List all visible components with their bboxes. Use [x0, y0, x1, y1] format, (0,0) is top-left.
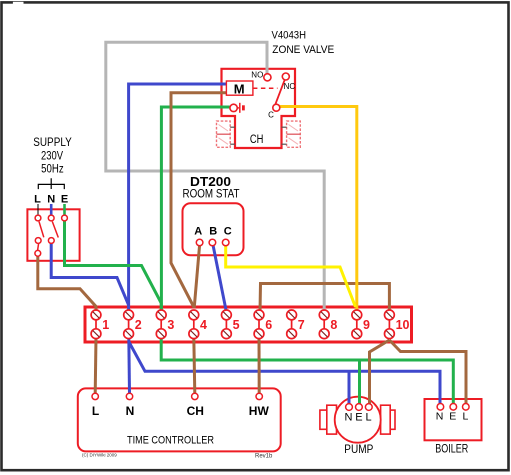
wire yellow stat C to T9: [226, 245, 356, 307]
svg-text:DT200: DT200: [190, 174, 231, 189]
wire brown T10 to pump L: [370, 340, 390, 405]
wire brown T4 to TC CH: [194, 337, 195, 394]
svg-text:BOILER: BOILER: [435, 444, 468, 456]
wire green valve earth to T3: [161, 107, 229, 312]
zone valve left pipe lug: [217, 121, 236, 147]
supply stub N: [50, 204, 53, 215]
strip terminal 6: [254, 310, 272, 339]
svg-text:CH: CH: [250, 134, 264, 146]
strip terminal 7: [287, 310, 305, 339]
wire blue bus to pump N and boiler N: [129, 342, 440, 404]
wire grey NO loop: [106, 42, 324, 312]
wire brown link T6 to T10: [260, 284, 389, 313]
supply switch blades: [39, 222, 44, 238]
boiler box: [425, 399, 482, 440]
wire gold valve C to T9: [280, 107, 357, 313]
svg-text:CH: CH: [187, 404, 204, 418]
svg-text:M: M: [234, 81, 245, 96]
supply terminals: [35, 215, 41, 221]
supply internals: [35, 215, 68, 256]
strip terminal 9: [352, 310, 370, 339]
svg-text:B: B: [209, 225, 217, 237]
supply stub L: [37, 204, 39, 215]
svg-text:A: A: [194, 225, 202, 237]
svg-text:4: 4: [200, 318, 207, 332]
wire brown T10 to boiler L: [389, 340, 466, 404]
svg-text:E: E: [355, 411, 362, 423]
valve earth symbol: [230, 103, 243, 113]
svg-text:E: E: [61, 193, 68, 205]
strip terminal 5: [222, 310, 240, 339]
svg-text:NO: NO: [251, 71, 263, 80]
svg-text:E: E: [449, 410, 456, 422]
svg-text:PUMP: PUMP: [344, 444, 373, 456]
strip terminal 4: [189, 310, 207, 339]
zone valve V4043H outline: [222, 69, 296, 148]
svg-text:N: N: [47, 193, 55, 205]
pump body: [320, 397, 395, 443]
wire green T3 to bus pump E boiler E: [161, 337, 453, 404]
svg-text:3: 3: [167, 318, 174, 332]
wire blue supply N: [51, 242, 128, 305]
svg-text:NC: NC: [284, 82, 296, 91]
svg-text:ZONE VALVE: ZONE VALVE: [272, 44, 334, 56]
valve motor M: [226, 81, 253, 95]
svg-text:(C) DIYWiki 2009: (C) DIYWiki 2009: [82, 453, 117, 458]
svg-text:9: 9: [363, 318, 370, 332]
wire brown stat A to T4: [194, 245, 199, 308]
strip terminal 8: [319, 310, 337, 339]
svg-text:N: N: [436, 410, 444, 422]
svg-text:V4043H: V4043H: [272, 30, 307, 42]
svg-text:7: 7: [298, 318, 305, 332]
pump terminals: [346, 404, 353, 411]
wire green supply E to T3: [65, 218, 162, 312]
wire brown supply L to T1: [38, 255, 96, 312]
svg-text:L: L: [462, 410, 468, 422]
svg-text:10: 10: [396, 318, 410, 332]
svg-text:6: 6: [265, 318, 272, 332]
zone valve right pipe lug: [282, 121, 301, 147]
wire brown T6 to TC HW: [258, 337, 261, 394]
svg-text:C: C: [268, 111, 274, 120]
svg-text:2: 2: [135, 318, 142, 332]
svg-text:L: L: [366, 411, 372, 423]
supply stub E: [63, 204, 66, 215]
room stat terminals: [196, 239, 203, 246]
svg-text:5: 5: [233, 318, 240, 332]
boiler terminals: [437, 404, 444, 411]
supply bracket: [38, 178, 64, 189]
svg-text:HW: HW: [249, 404, 270, 418]
svg-text:C: C: [224, 225, 232, 237]
strip terminal 2: [124, 310, 142, 339]
room stat box DT200: [183, 203, 244, 255]
supply box: [27, 209, 79, 260]
svg-text:50Hz: 50Hz: [41, 164, 64, 176]
wire brown T1 to TC L: [94, 337, 98, 394]
time controller terminals: [92, 393, 98, 399]
terminal strip box: [85, 307, 412, 342]
svg-text:230V: 230V: [41, 151, 63, 163]
svg-text:TIME CONTROLLER: TIME CONTROLLER: [127, 435, 214, 447]
wire blue stat B to T5: [213, 245, 226, 312]
svg-text:1: 1: [102, 318, 109, 332]
svg-text:L: L: [92, 404, 99, 418]
svg-text:N: N: [345, 411, 353, 423]
strip terminal 10: [385, 310, 410, 339]
valve dashed link: [253, 87, 278, 89]
svg-text:8: 8: [330, 318, 337, 332]
wire blue M to T2: [129, 84, 227, 312]
valve terminal NO: [264, 74, 271, 81]
valve switch lever: [275, 80, 284, 105]
svg-text:ROOM STAT: ROOM STAT: [183, 188, 240, 200]
valve terminal C: [273, 104, 280, 111]
wire blue T2 to TC N: [127, 337, 131, 394]
strip terminal 3: [156, 310, 174, 339]
svg-text:SUPPLY: SUPPLY: [33, 137, 72, 149]
svg-text:N: N: [126, 404, 135, 418]
valve terminal NC: [282, 73, 289, 80]
wire brown M to T4: [171, 93, 226, 307]
svg-text:L: L: [34, 193, 41, 205]
strip terminal 1: [91, 310, 109, 339]
svg-text:Rev1b: Rev1b: [255, 454, 273, 460]
time controller box: [78, 388, 281, 451]
